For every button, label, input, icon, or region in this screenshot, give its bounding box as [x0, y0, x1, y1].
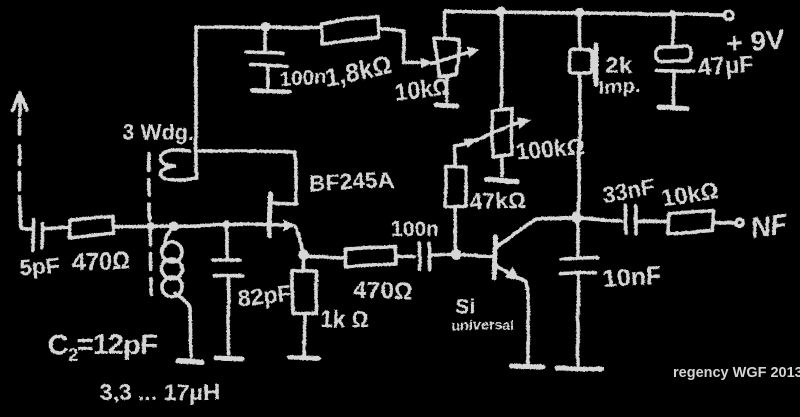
ground 1k: [290, 357, 318, 358]
resistor 1k: [292, 258, 316, 354]
svg-text:47µF: 47µF: [698, 51, 755, 82]
svg-text:3 Wdg.: 3 Wdg.: [122, 120, 194, 145]
inductor L1 tank coil: [165, 227, 174, 246]
wire to NF: [713, 222, 735, 223]
svg-text:100n: 100n: [391, 218, 439, 241]
wire 1.8k to pot: [378, 29, 421, 63]
wire source to 470R: [307, 256, 344, 257]
ground 100n bypass: [252, 91, 290, 92]
node 82pF tap: [223, 221, 231, 229]
wire: [431, 253, 451, 257]
resistor 47k: [445, 144, 466, 251]
svg-text:C2=12pF: C2=12pF: [48, 329, 157, 365]
node rail 100k: [496, 7, 506, 17]
svg-text:1,8kΩ: 1,8kΩ: [322, 50, 394, 93]
wire: [44, 226, 68, 230]
svg-text:10nF: 10nF: [602, 262, 662, 293]
svg-text:Si: Si: [455, 295, 475, 318]
node coil tap: [169, 221, 179, 231]
ground 10nF: [557, 368, 601, 369]
svg-text:470Ω: 470Ω: [71, 247, 130, 276]
svg-text:47kΩ: 47kΩ: [469, 186, 526, 215]
ground emitter: [512, 366, 543, 367]
svg-text:3,3 ... 17µH: 3,3 ... 17µH: [100, 379, 219, 405]
capacitor 10nF: [560, 218, 598, 364]
coupling coil 3 Wdg: [160, 150, 196, 180]
potentiometer 100k: [464, 12, 531, 176]
ground 47uF: [659, 108, 687, 109]
resistor 470R input: [69, 217, 113, 238]
earphone 2k: [570, 13, 596, 217]
svg-text:100n: 100n: [280, 66, 327, 91]
svg-text:NF: NF: [749, 208, 791, 244]
svg-text:1k Ω: 1k Ω: [320, 306, 370, 332]
svg-text:BF245A: BF245A: [308, 167, 395, 196]
wire collector to 33n: [577, 218, 622, 220]
antenna: [13, 92, 31, 228]
ground L1: [177, 361, 202, 362]
svg-text:5pF: 5pF: [19, 252, 62, 281]
wire coil drop: [194, 27, 198, 179]
capacitor 100n coupling: [419, 243, 429, 269]
wire base: [456, 255, 492, 256]
svg-text:100kΩ: 100kΩ: [515, 133, 586, 165]
capacitor 5pF: [33, 219, 42, 250]
capacitor 33nF: [626, 205, 636, 234]
wire: [638, 219, 667, 223]
svg-text:82pF: 82pF: [236, 280, 292, 311]
node FET source: [298, 249, 309, 260]
svg-text:10kΩ: 10kΩ: [660, 177, 719, 211]
resistor 1.8k: [321, 17, 378, 44]
terminal +9V: [725, 11, 734, 20]
svg-text:regency WGF 2013: regency WGF 2013: [673, 365, 800, 381]
node collector: [572, 213, 583, 224]
svg-text:2k: 2k: [605, 52, 632, 79]
resistor 470R source: [345, 246, 396, 267]
capacitor 82pF: [212, 224, 242, 354]
transistor U1 BF245A JFET: [270, 194, 302, 250]
resistor 10k output: [668, 210, 713, 233]
node 100n bypass: [260, 22, 270, 32]
transistor Q1 Si universal: [495, 218, 575, 363]
svg-text:10kΩ: 10kΩ: [393, 73, 451, 105]
node rail 47u: [668, 10, 676, 18]
wire coil to drain: [196, 151, 296, 203]
node base: [451, 250, 462, 261]
ground 82pF: [216, 358, 242, 359]
wire gate line: [113, 224, 284, 227]
svg-text:33nF: 33nF: [600, 173, 657, 208]
ground 100k: [487, 180, 517, 181]
node dashed-wire crossing: [147, 222, 155, 230]
svg-text:Imp.: Imp.: [598, 76, 640, 100]
wire rail2: [196, 25, 321, 29]
wire: [396, 254, 414, 258]
potentiometer 10k: [421, 13, 479, 101]
ground 10k: [436, 105, 457, 106]
node rail phones: [575, 8, 585, 18]
tuning shaft dashed line: [148, 154, 152, 298]
capacitor 47uF: [656, 14, 694, 105]
terminal NF: [737, 220, 744, 227]
svg-text:470Ω: 470Ω: [354, 278, 412, 305]
wire top rail: [446, 12, 724, 15]
capacitor 100n bypass: [247, 27, 287, 88]
svg-text:universal: universal: [452, 317, 513, 333]
